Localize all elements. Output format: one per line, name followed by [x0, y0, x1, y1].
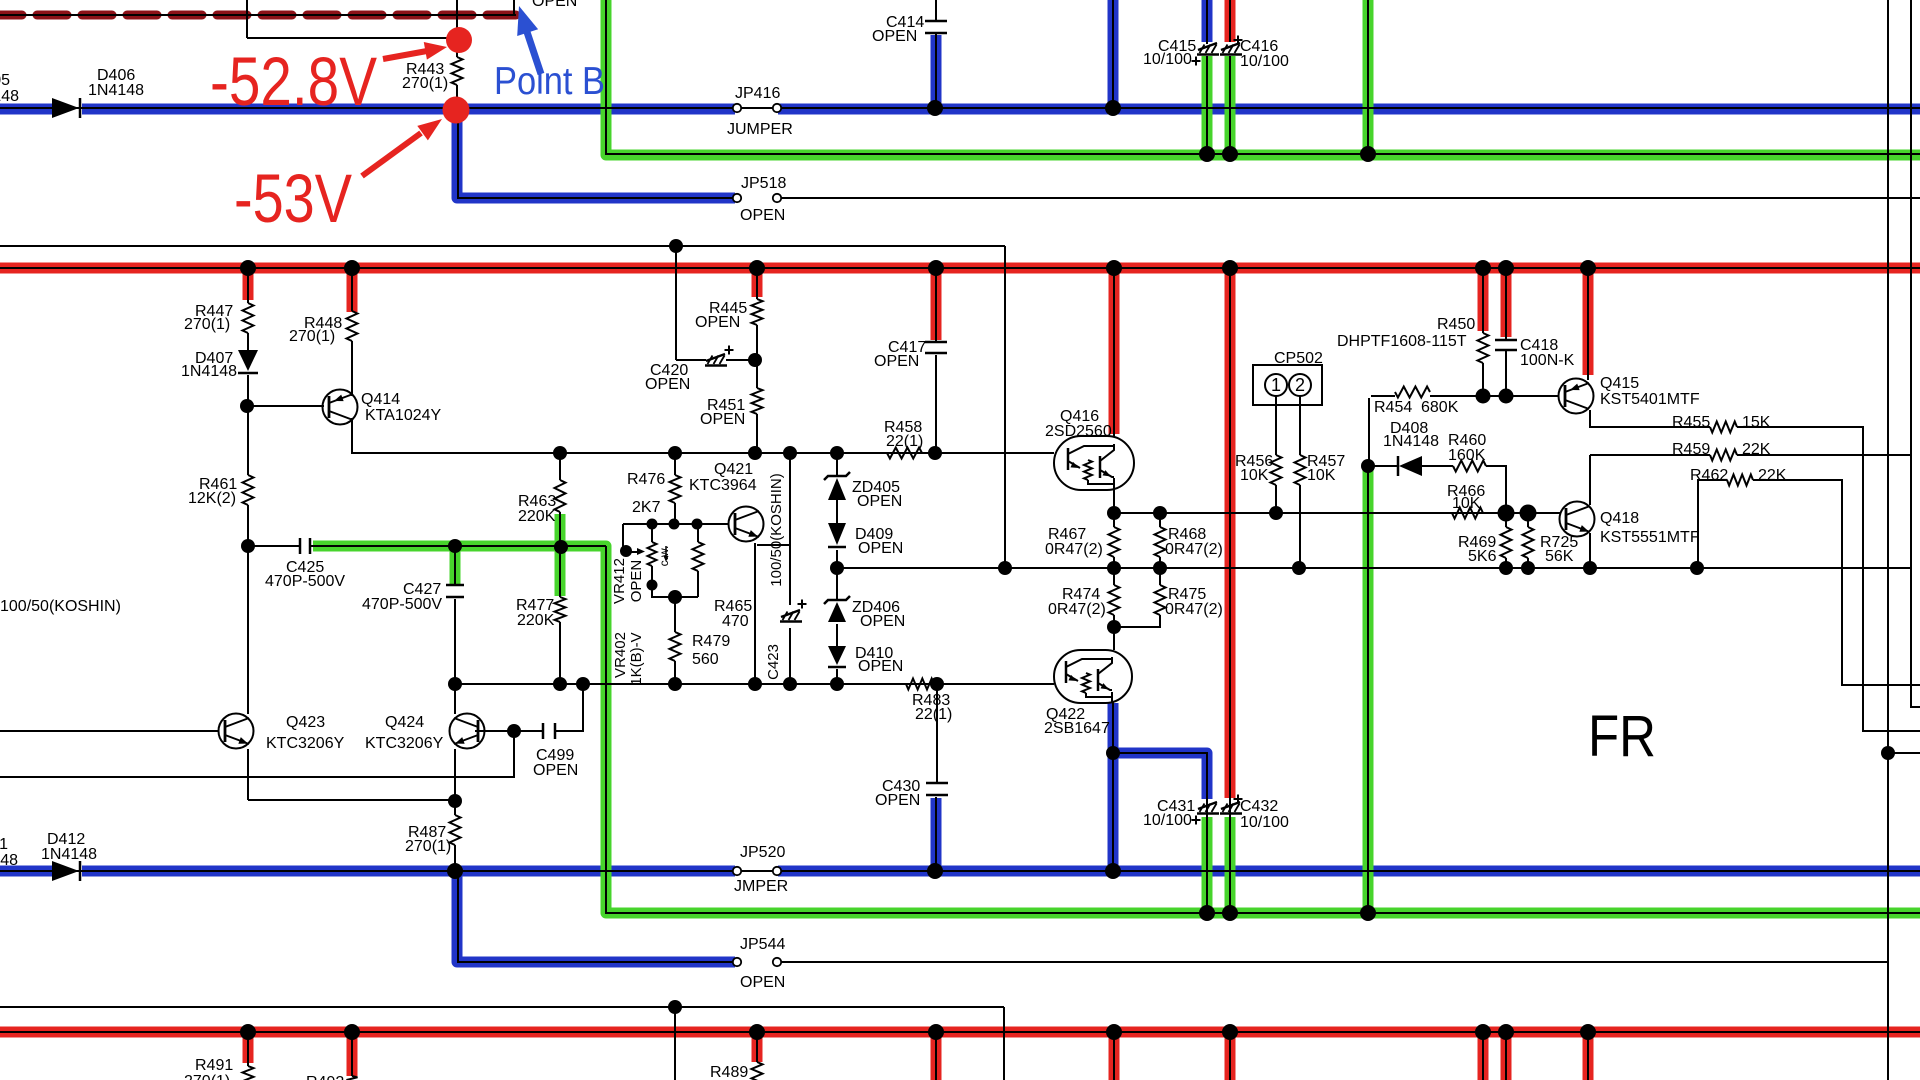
svg-text:VR402: VR402: [612, 632, 629, 678]
svg-text:560: 560: [692, 651, 719, 668]
svg-text:10K: 10K: [1307, 467, 1336, 484]
svg-text:Q421: Q421: [714, 461, 753, 478]
svg-text:160K: 160K: [1448, 447, 1486, 464]
svg-text:0R47(2): 0R47(2): [1045, 541, 1103, 558]
svg-text:1N4148: 1N4148: [181, 363, 237, 380]
svg-text:470: 470: [722, 613, 749, 630]
svg-text:VR412: VR412: [611, 558, 628, 604]
svg-text:220K: 220K: [517, 612, 555, 629]
svg-text:1N4148: 1N4148: [41, 846, 97, 863]
svg-text:D411: D411: [0, 836, 8, 853]
svg-text:-52.8V: -52.8V: [210, 43, 377, 120]
svg-text:KTC3206Y: KTC3206Y: [266, 735, 345, 752]
svg-text:KST5551MTF: KST5551MTF: [1600, 529, 1700, 546]
svg-text:-53V: -53V: [234, 160, 352, 237]
svg-text:270(1): 270(1): [184, 1073, 230, 1080]
svg-text:270(1): 270(1): [405, 838, 451, 855]
svg-text:2K7: 2K7: [632, 499, 661, 516]
svg-text:22(1): 22(1): [915, 706, 952, 723]
svg-text:R450: R450: [1437, 316, 1475, 333]
svg-text:100/50(KOSHIN): 100/50(KOSHIN): [768, 473, 785, 586]
svg-text:270(1): 270(1): [289, 328, 335, 345]
svg-text:1N4148: 1N4148: [0, 852, 18, 869]
svg-text:OPEN: OPEN: [533, 762, 578, 779]
svg-text:OPEN: OPEN: [858, 540, 903, 557]
svg-text:0R47(2): 0R47(2): [1165, 541, 1223, 558]
svg-text:OPEN: OPEN: [857, 493, 902, 510]
svg-text:1K(B)-V: 1K(B)-V: [628, 632, 645, 685]
svg-text:5K6: 5K6: [1468, 548, 1497, 565]
svg-text:JP518: JP518: [741, 175, 786, 192]
svg-text:R462: R462: [1690, 467, 1728, 484]
svg-text:OPEN: OPEN: [875, 792, 920, 809]
svg-text:OPEN: OPEN: [645, 376, 690, 393]
svg-text:OPEN: OPEN: [628, 560, 645, 603]
svg-text:R491: R491: [195, 1057, 233, 1074]
svg-text:OPEN: OPEN: [860, 613, 905, 630]
svg-text:R479: R479: [692, 633, 730, 650]
svg-text:R454: R454: [1374, 399, 1412, 416]
svg-text:R476: R476: [627, 471, 665, 488]
svg-text:C423: C423: [765, 644, 782, 680]
svg-text:100/50(KOSHIN): 100/50(KOSHIN): [0, 598, 121, 615]
svg-text:R492: R492: [306, 1074, 344, 1080]
svg-text:KTC3964: KTC3964: [689, 477, 757, 494]
svg-text:Point B: Point B: [494, 60, 605, 103]
svg-text:1: 1: [1271, 375, 1281, 395]
svg-text:Q424: Q424: [385, 714, 424, 731]
svg-text:Q414: Q414: [361, 391, 400, 408]
svg-text:10/100: 10/100: [1240, 814, 1289, 831]
svg-text:KST5401MTF: KST5401MTF: [1600, 391, 1700, 408]
svg-text:OPEN: OPEN: [872, 28, 917, 45]
svg-text:10/100: 10/100: [1143, 51, 1192, 68]
svg-text:FR: FR: [1588, 704, 1656, 769]
svg-text:470P-500V: 470P-500V: [265, 573, 345, 590]
svg-text:Q423: Q423: [286, 714, 325, 731]
svg-text:10/100: 10/100: [1143, 812, 1192, 829]
svg-text:1N4148: 1N4148: [0, 88, 19, 105]
svg-text:10K: 10K: [1240, 467, 1269, 484]
svg-text:JP520: JP520: [740, 844, 785, 861]
svg-text:OPEN: OPEN: [695, 314, 740, 331]
svg-text:OPEN: OPEN: [532, 0, 577, 10]
svg-text:270(1): 270(1): [402, 75, 448, 92]
svg-text:12K(2): 12K(2): [188, 490, 236, 507]
svg-text:1N4148: 1N4148: [88, 82, 144, 99]
svg-text:JMPER: JMPER: [734, 878, 788, 895]
svg-text:OPEN: OPEN: [874, 353, 919, 370]
svg-text:JP544: JP544: [740, 936, 785, 953]
svg-text:R455: R455: [1672, 414, 1710, 431]
svg-text:22(1): 22(1): [886, 433, 923, 450]
svg-text:KTA1024Y: KTA1024Y: [365, 407, 442, 424]
svg-text:470P-500V: 470P-500V: [362, 596, 442, 613]
svg-text:680K: 680K: [1421, 399, 1459, 416]
svg-text:1N4148: 1N4148: [1383, 433, 1439, 450]
svg-text:2SD2560: 2SD2560: [1045, 423, 1112, 440]
svg-text:100N-K: 100N-K: [1520, 352, 1575, 369]
svg-text:D405: D405: [0, 72, 10, 89]
svg-text:OPEN: OPEN: [740, 207, 785, 224]
svg-text:DHPTF1608-115T: DHPTF1608-115T: [1337, 333, 1467, 350]
svg-text:0R47(2): 0R47(2): [1165, 601, 1223, 618]
svg-text:CP502: CP502: [1274, 350, 1323, 367]
svg-text:OPEN: OPEN: [740, 974, 785, 991]
svg-text:22K: 22K: [1758, 467, 1787, 484]
svg-text:KTC3206Y: KTC3206Y: [365, 735, 444, 752]
svg-text:JP416: JP416: [735, 85, 780, 102]
svg-text:10/100: 10/100: [1240, 53, 1289, 70]
svg-text:22K: 22K: [1742, 441, 1771, 458]
svg-text:JUMPER: JUMPER: [727, 121, 793, 138]
svg-text:220K: 220K: [518, 508, 556, 525]
svg-text:15K: 15K: [1742, 414, 1771, 431]
svg-text:C432: C432: [1240, 798, 1278, 815]
svg-text:OPEN: OPEN: [700, 411, 745, 428]
svg-text:Q418: Q418: [1600, 510, 1639, 527]
svg-text:R459: R459: [1672, 441, 1710, 458]
svg-text:2: 2: [1295, 375, 1305, 395]
svg-text:2SB1647: 2SB1647: [1044, 720, 1110, 737]
svg-text:Q415: Q415: [1600, 375, 1639, 392]
svg-text:10K: 10K: [1452, 495, 1481, 512]
svg-text:56K: 56K: [1545, 548, 1574, 565]
svg-text:270(1): 270(1): [184, 316, 230, 333]
svg-text:0R47(2): 0R47(2): [1048, 601, 1106, 618]
svg-text:OPEN: OPEN: [858, 658, 903, 675]
